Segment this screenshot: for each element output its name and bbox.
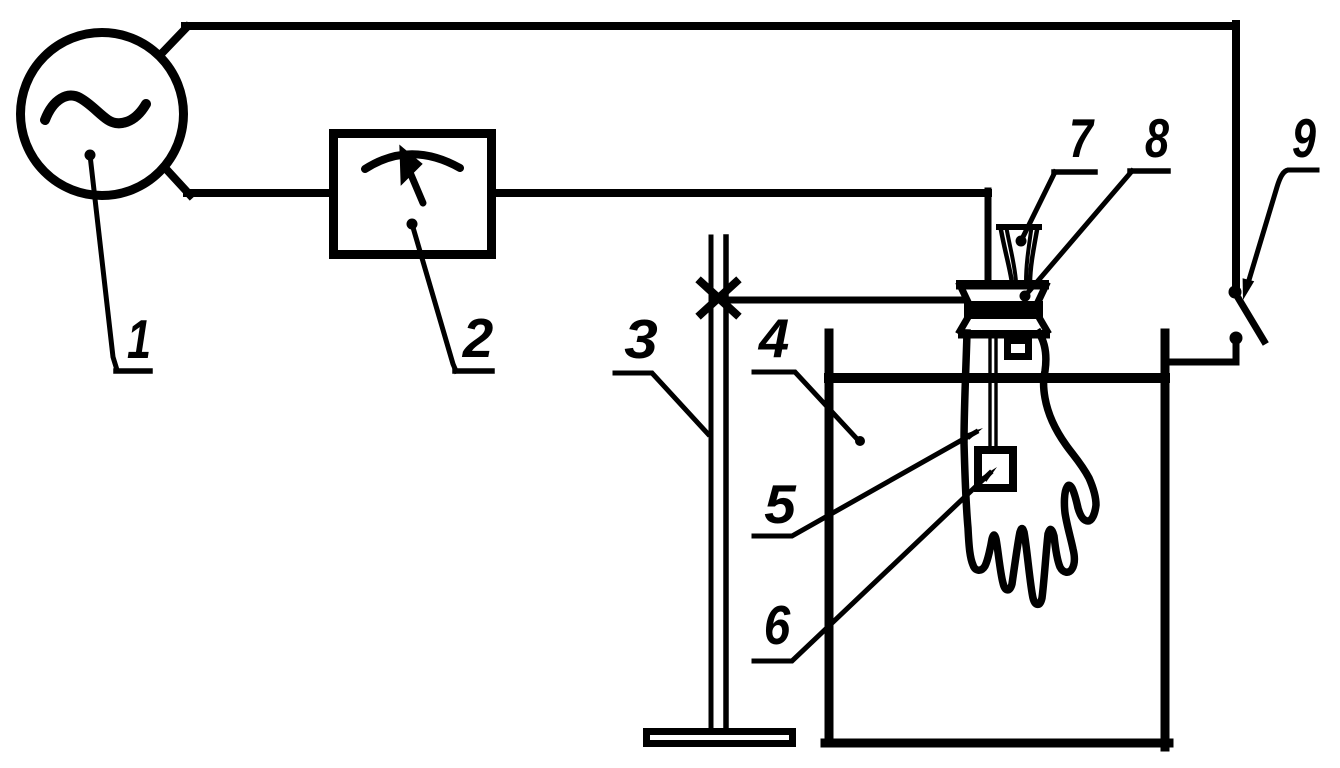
glove outline bbox=[964, 333, 1096, 604]
label 8 leader bbox=[1020, 291, 1031, 302]
switch blade bbox=[1237, 296, 1264, 341]
switch lower wire to tank bbox=[1166, 339, 1236, 362]
label 3 leader bbox=[615, 373, 708, 434]
clamp right lip bbox=[1038, 285, 1046, 302]
stand clamp X mark bbox=[701, 282, 736, 314]
funnel right wall inner bbox=[1026, 231, 1031, 282]
label 9 leader bbox=[1249, 170, 1317, 280]
wire bottom diagonal from source bbox=[167, 170, 190, 195]
stand rod left line bbox=[709, 237, 714, 731]
label 6 leader bbox=[754, 473, 990, 661]
svg-text:4: 4 bbox=[758, 307, 789, 369]
wire source to meter bbox=[187, 189, 332, 197]
AC source G1 circle bbox=[21, 33, 184, 196]
svg-text:2: 2 bbox=[462, 307, 494, 369]
wire down to clamp bbox=[985, 191, 992, 283]
svg-text:5: 5 bbox=[764, 473, 797, 535]
funnel 7 top rim bbox=[999, 224, 1039, 230]
stand rod right line bbox=[723, 237, 729, 731]
funnel right wall outer bbox=[1030, 230, 1037, 283]
wire stand to clamp bbox=[714, 297, 962, 304]
wire meter to glove horizontal bbox=[494, 189, 988, 197]
clamp left lip bbox=[960, 285, 968, 302]
tank bottom bbox=[825, 739, 1169, 748]
svg-text:3: 3 bbox=[624, 308, 658, 370]
label 2 leader bbox=[407, 219, 418, 230]
meter scale arc bbox=[365, 154, 460, 169]
clamp flare left bbox=[960, 319, 967, 331]
clamp black band bbox=[964, 301, 1043, 319]
label 4 leader bbox=[754, 372, 858, 440]
svg-text:6: 6 bbox=[764, 594, 791, 656]
electrode rod line left bbox=[988, 338, 991, 447]
tank right wall bbox=[1161, 333, 1170, 747]
wire top horizontal bbox=[185, 22, 1236, 30]
AC source sine symbol bbox=[45, 96, 146, 124]
label 5 leader bbox=[754, 432, 976, 536]
wire top diagonal from source bbox=[164, 27, 187, 51]
tank left wall bbox=[825, 333, 834, 743]
label 1 leader bbox=[85, 150, 96, 161]
clamp flare right bbox=[1040, 319, 1047, 331]
clamp bottom bar bbox=[958, 330, 1050, 339]
svg-text:7: 7 bbox=[1069, 107, 1095, 169]
switch top contact dot bbox=[1229, 286, 1242, 299]
switch bottom contact dot bbox=[1230, 332, 1243, 345]
stand base bbox=[647, 732, 793, 744]
electrode plate 6 bbox=[978, 450, 1013, 488]
label 7 leader bbox=[1016, 236, 1027, 247]
svg-text:9: 9 bbox=[1292, 107, 1316, 169]
funnel left wall inner bbox=[1007, 231, 1016, 282]
meter P1 box bbox=[334, 134, 492, 255]
water line bbox=[829, 373, 1165, 383]
svg-text:8: 8 bbox=[1145, 107, 1169, 169]
meter needle bbox=[409, 170, 423, 203]
holder square below clamp bbox=[1008, 341, 1029, 357]
funnel left wall outer bbox=[1001, 230, 1012, 283]
clamp 8 top plate bbox=[956, 280, 1049, 290]
wire right vertical to switch bbox=[1232, 24, 1240, 291]
electrode rod line right bbox=[994, 338, 997, 447]
svg-text:1: 1 bbox=[127, 308, 151, 370]
